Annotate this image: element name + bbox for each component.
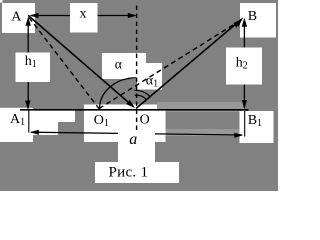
svg-text:A: A xyxy=(11,10,22,25)
x measure line xyxy=(30,13,137,18)
a measure left end post xyxy=(28,111,30,133)
svg-text:O: O xyxy=(140,113,150,128)
a measure right end post xyxy=(244,111,246,137)
svg-text:B: B xyxy=(248,9,257,24)
box B1 xyxy=(240,111,274,143)
dashed line A to O1 xyxy=(29,18,99,109)
box h2 xyxy=(226,48,262,85)
white area below baseline O1..O..right xyxy=(84,110,166,143)
box A1 group xyxy=(0,108,33,142)
h2 measure line xyxy=(242,18,247,109)
alpha1 arcs xyxy=(134,90,150,96)
alpha arc xyxy=(100,78,137,109)
caption box xyxy=(95,162,179,183)
light gray panel around right baseline xyxy=(157,102,245,136)
box A xyxy=(2,3,35,33)
box alpha1 xyxy=(137,63,162,90)
box B xyxy=(240,3,276,38)
box O1-O band above baseline xyxy=(84,105,157,111)
h1 measure line xyxy=(25,17,31,110)
solid line O to B xyxy=(136,17,243,108)
box x xyxy=(70,3,98,33)
svg-text:a: a xyxy=(129,131,137,148)
svg-text:α: α xyxy=(115,57,122,72)
box h1 xyxy=(16,53,51,83)
dashed line O1 to B xyxy=(99,19,242,108)
dashed vertical through O xyxy=(136,6,138,132)
box alpha xyxy=(102,53,146,79)
box a xyxy=(118,126,155,162)
svg-text:x: x xyxy=(80,7,87,22)
gray inner rect below baseline xyxy=(166,112,242,129)
svg-text:Рис. 1: Рис. 1 xyxy=(109,164,149,180)
a measure line xyxy=(30,130,244,138)
solid line A to O xyxy=(28,15,135,108)
gray background xyxy=(0,0,278,191)
baseline A1-B1 xyxy=(20,109,249,111)
